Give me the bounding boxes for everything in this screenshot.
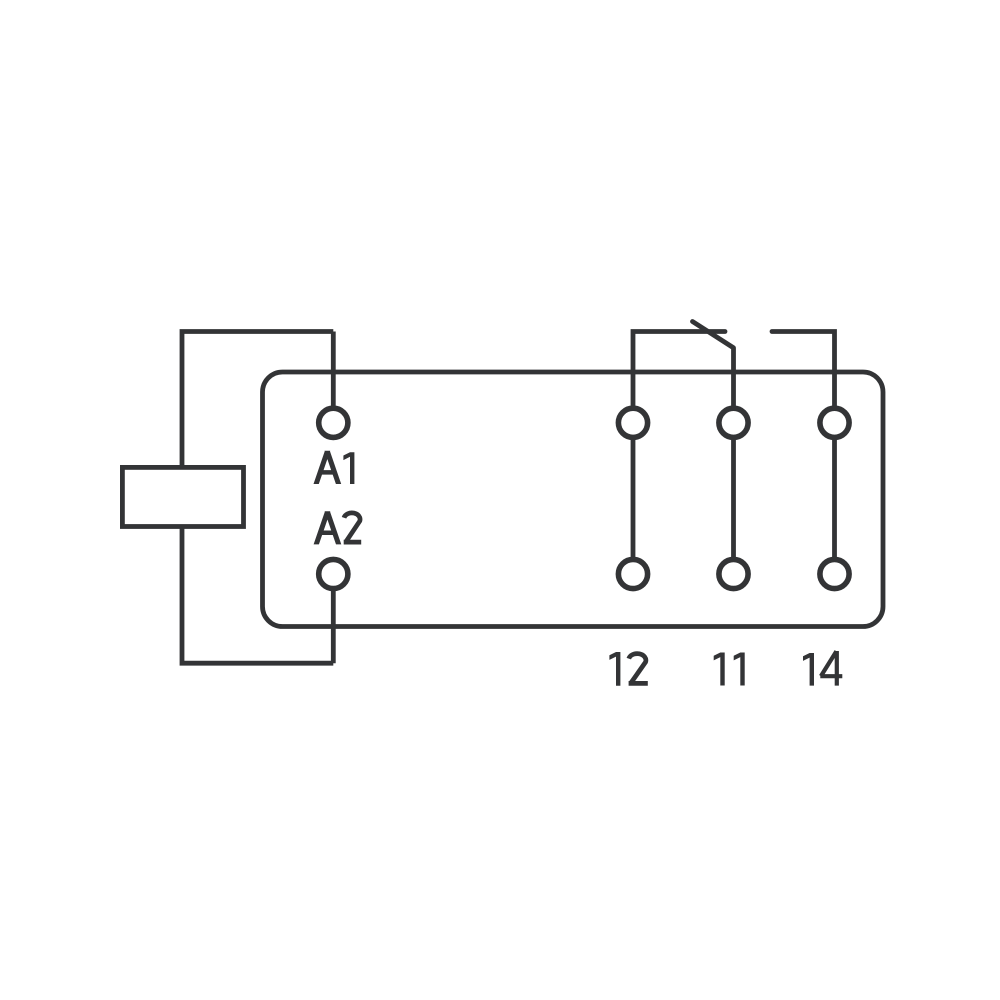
wire: contact 12 top bar: [633, 332, 725, 575]
wire: A1 lead: [331, 332, 336, 423]
relay body outline: [263, 372, 884, 627]
label 11: [714, 653, 745, 686]
label A2: [314, 511, 362, 544]
label A1: [314, 451, 355, 484]
terminal 11 top: [719, 408, 748, 437]
terminal A2: [319, 559, 348, 588]
terminal 11 bottom: [719, 559, 748, 588]
label 12: [609, 652, 647, 686]
terminal 12 bottom: [618, 559, 647, 588]
label 14: [803, 651, 842, 686]
wire: coil loop A1 top bar: [182, 332, 333, 664]
wire: contact 14 top bar: [772, 332, 835, 575]
coil K: [122, 467, 243, 526]
terminal A1: [319, 408, 348, 437]
terminal 14 bottom: [820, 559, 849, 588]
wire: A2 lead: [331, 574, 336, 663]
terminal 14 top: [820, 408, 849, 437]
terminal 12 top: [618, 408, 647, 437]
contact arm (common 11): [693, 322, 734, 575]
